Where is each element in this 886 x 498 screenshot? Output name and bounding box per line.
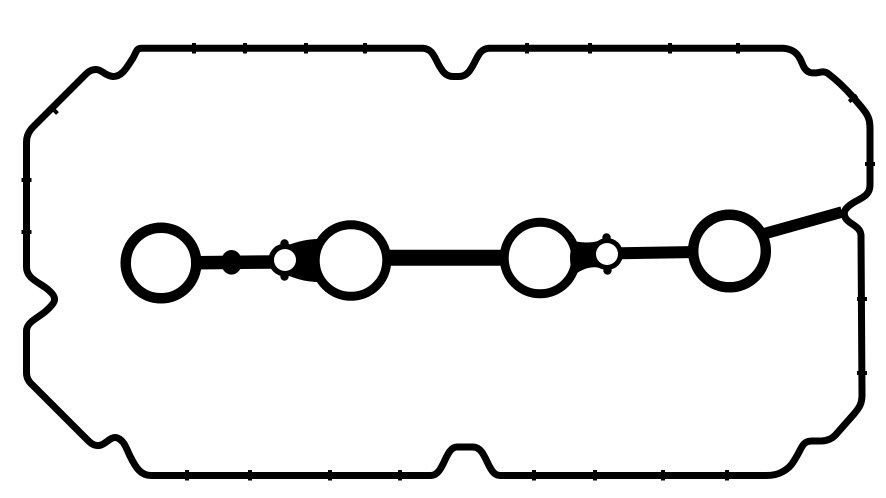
web S1 to C2	[288, 239, 320, 282]
small ring S2 disc	[591, 238, 623, 270]
bore ring C3	[504, 222, 576, 294]
blob bolt boss B1	[221, 250, 242, 275]
tick marks left edge	[22, 180, 32, 232]
bar C2 to C3	[383, 250, 507, 266]
tick marks top edge	[194, 43, 738, 54]
S2 top point	[602, 233, 610, 241]
tick mark top-right diagonal	[849, 95, 857, 101]
S1 inner hole	[274, 249, 296, 271]
bore ring C1	[126, 228, 197, 299]
bore ring C2	[315, 225, 387, 297]
bar C1 to S1	[196, 255, 274, 269]
diagonal bar C4 to right edge	[758, 212, 842, 236]
S2 inner hole	[596, 243, 618, 265]
S1 top point	[280, 239, 288, 247]
small ring S1 disc	[269, 244, 302, 277]
web C3 to S2	[570, 239, 614, 276]
tick marks right edge	[857, 164, 875, 373]
tick mark top-left chamfer	[51, 107, 58, 114]
S1 bottom point	[280, 272, 288, 280]
bar S2 to C4	[620, 252, 697, 253]
S2 bottom point	[603, 266, 611, 274]
bore ring C4	[693, 215, 766, 288]
tick marks bottom edge	[187, 470, 727, 481]
